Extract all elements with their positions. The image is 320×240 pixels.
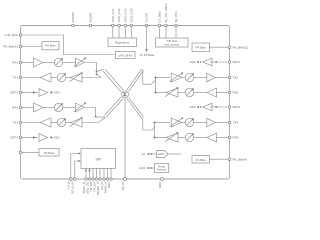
- wire TR pin: [103, 169, 105, 178]
- amp PA2: [207, 73, 216, 81]
- switch ch2 throw: [151, 81, 155, 85]
- svg-text:RX4: RX4: [233, 136, 239, 140]
- wire: [178, 137, 185, 139]
- junction dot: [96, 71, 98, 73]
- amp LNA1: [34, 58, 44, 67]
- amp LNA3: [34, 103, 44, 112]
- phase shifter PS3T: [57, 118, 66, 127]
- svg-text:SL_OK_HB12: SL_OK_HB12: [164, 3, 168, 22]
- wire to pin: [215, 122, 228, 124]
- pin PA_BIAS12 right: [228, 45, 248, 49]
- svg-text:PA_Bias12: PA_Bias12: [3, 45, 18, 49]
- wire SCLK feed: [75, 160, 81, 178]
- svg-text:SPI: SPI: [95, 158, 101, 162]
- phase shifter PS2: [185, 88, 194, 97]
- svg-text:TX4: TX4: [233, 121, 239, 125]
- switch ch2 pole route: [143, 70, 151, 85]
- amp PA1: [40, 73, 51, 82]
- switch pole ch3 diagonals: [105, 97, 124, 117]
- svg-text:Regulators: Regulators: [115, 41, 130, 45]
- svg-text:ADC: ADC: [190, 60, 197, 64]
- wire adc out: [168, 153, 181, 155]
- wire VDD1 down: [112, 27, 114, 38]
- vga VGA1T: [70, 72, 83, 82]
- svg-text:TX1: TX1: [12, 76, 18, 80]
- svg-text:Ch_Bias: Ch_Bias: [158, 11, 162, 23]
- wire: [63, 62, 76, 64]
- wire PA Bias BR to pin: [210, 158, 229, 160]
- svg-text:GND: GND: [158, 181, 162, 189]
- wire: [43, 107, 54, 109]
- wire RX1 in: [22, 62, 34, 64]
- wire PA_ON pin: [96, 169, 98, 178]
- phase shifter PS4T: [185, 118, 194, 127]
- svg-text:GND: GND: [107, 181, 111, 189]
- wire SDIO pin: [85, 169, 87, 178]
- amp LNA4: [207, 133, 217, 142]
- amp PA4: [207, 118, 216, 126]
- adc box LD: [157, 151, 169, 158]
- arrow to ADC: [197, 61, 199, 63]
- pin RX1: [12, 61, 22, 65]
- switch ch2 bar: [155, 77, 157, 94]
- svg-text:DET4: DET4: [233, 105, 241, 109]
- wire: [182, 77, 186, 79]
- switch ch4 bar: [154, 122, 156, 139]
- vga VGA2: [165, 87, 178, 97]
- wire to switch: [155, 137, 167, 139]
- dot: [215, 61, 217, 63]
- spi pin group: [82, 169, 112, 196]
- wire: [43, 62, 54, 64]
- svg-text:LNA_Bias: LNA_Bias: [5, 33, 19, 37]
- wire: [194, 92, 207, 94]
- vga VGA3: [74, 102, 87, 112]
- switch throw TX3: [99, 117, 105, 122]
- switch pole ch2 diagonals: [127, 69, 144, 91]
- wire SDIO down: [175, 27, 177, 38]
- box LNA_BIAS: [116, 52, 136, 59]
- svg-text:Tx_ON: Tx_ON: [145, 13, 149, 23]
- pin DET4: [228, 105, 240, 109]
- wire CLK down: [165, 27, 167, 38]
- wire PA_Bias12 to box: [22, 46, 42, 48]
- vga VGA4T: [170, 117, 184, 127]
- wire SDO pin: [89, 169, 91, 178]
- vga VGA1: [74, 57, 87, 67]
- box Regulators: [108, 38, 137, 47]
- wire LNA_Bias trace: [22, 35, 116, 55]
- svg-text:TX2: TX2: [233, 76, 239, 80]
- wire: [22, 107, 34, 109]
- pin DET1: [10, 91, 21, 95]
- amp det3: [39, 134, 48, 142]
- pin CSB bottom: [67, 178, 73, 190]
- pin SDIO top: [174, 11, 178, 27]
- wire: [51, 77, 57, 79]
- vga VGA4: [165, 132, 178, 142]
- phase shifter PS3: [54, 103, 63, 112]
- phase shifter PS4: [185, 133, 194, 142]
- svg-text:DET2: DET2: [233, 60, 241, 64]
- svg-text:and control: and control: [164, 42, 179, 46]
- svg-text:ADDR1: ADDR1: [88, 12, 92, 23]
- box PA Bias top-left: [42, 41, 59, 50]
- wire RST pin: [99, 169, 101, 178]
- combiner sigma: [122, 91, 129, 98]
- svg-text:SE_PCL: SE_PCL: [174, 11, 178, 23]
- pin TX3: [12, 121, 21, 125]
- svg-text:PA Bias: PA Bias: [196, 45, 207, 49]
- switch ch4 throw: [153, 126, 156, 130]
- node on left border: [19, 151, 22, 154]
- wire: [210, 61, 228, 63]
- svg-text:VDD_CH1: VDD_CH1: [111, 8, 115, 22]
- pin RX4: [228, 136, 238, 140]
- wire RF_IO: [124, 98, 126, 178]
- pin SCLK bottom: [71, 178, 77, 194]
- wire MISO pin: [107, 169, 109, 178]
- switch pole ch4 diagonals: [127, 97, 144, 118]
- svg-text:PA_bias34: PA_bias34: [233, 157, 248, 161]
- switch throw TX1: [97, 75, 101, 78]
- wire to switch: [82, 77, 101, 79]
- wire from switch: [155, 122, 171, 124]
- wire: [66, 122, 71, 124]
- wire VDD2 down: [118, 27, 120, 38]
- svg-text:LD: LD: [142, 152, 147, 156]
- svg-text:ADC: ADC: [139, 166, 146, 170]
- arrow to ADC: [197, 106, 199, 108]
- wire CSB feed: [71, 152, 81, 177]
- amp LNA2: [207, 88, 217, 97]
- svg-text:ADC: ADC: [54, 91, 61, 95]
- svg-text:PA Bias: PA Bias: [196, 158, 207, 162]
- pin VDD3 top: [123, 8, 127, 27]
- svg-text:ADC: ADC: [54, 136, 61, 140]
- pin TX1: [12, 76, 21, 80]
- phase shifter PS1T: [57, 73, 66, 82]
- pin TX4: [228, 121, 238, 125]
- switch ch4 pole route: [143, 118, 153, 131]
- pin CLK top: [164, 3, 168, 26]
- amp det2: [203, 58, 213, 66]
- pin VDD2 top: [117, 8, 121, 27]
- svg-text:RX1: RX1: [12, 61, 18, 65]
- wire to switch: [156, 92, 167, 94]
- temp sensor box: [155, 164, 169, 173]
- svg-text:SCLK_IN: SCLK_IN: [71, 182, 75, 195]
- arrow to ADC: [51, 91, 54, 93]
- wire TR down: [159, 27, 161, 38]
- wire: [22, 92, 38, 94]
- svg-text:DET1: DET1: [10, 91, 18, 95]
- wire: [51, 122, 57, 124]
- wire node to PA Bias: [22, 151, 39, 153]
- pin TX2: [228, 76, 238, 80]
- svg-text:To PA Bias: To PA Bias: [140, 53, 155, 57]
- wire: [22, 137, 38, 139]
- phase shifter PS1: [54, 58, 63, 67]
- amp det4: [203, 103, 213, 111]
- wire: [194, 122, 207, 124]
- vga VGA2T: [170, 72, 184, 82]
- wire TX_ON down arrow: [145, 27, 147, 52]
- svg-text:RX2: RX2: [233, 91, 239, 95]
- wire VDD4 down: [130, 27, 132, 38]
- amp PA3: [40, 118, 51, 127]
- pin DET2: [228, 60, 240, 64]
- pin PA_BIAS34 right: [228, 157, 247, 161]
- phase shifter PS2T: [185, 73, 194, 82]
- switch throw RX1: [97, 69, 103, 71]
- svg-text:VDD_CH2: VDD_CH2: [117, 8, 121, 22]
- arrow to ADC: [51, 136, 54, 138]
- switch pole ch1 diagonals: [103, 69, 123, 92]
- pin TX_ON top: [145, 13, 149, 27]
- wire PA Bias TR to pin: [210, 46, 229, 48]
- wire: [66, 77, 71, 79]
- svg-text:PA Bias: PA Bias: [45, 44, 56, 48]
- pin ADDR0 top: [71, 12, 75, 27]
- box PA Bias top-right: [192, 43, 210, 52]
- wire to switch: [84, 108, 96, 117]
- svg-text:RF_IO: RF_IO: [121, 181, 125, 191]
- svg-text:ADDR0: ADDR0: [71, 12, 75, 23]
- svg-text:VDD_CH3: VDD_CH3: [123, 8, 127, 22]
- vga VGA3T: [70, 117, 83, 127]
- box T/R bias and control: [156, 38, 189, 47]
- svg-text:ADC: ADC: [190, 105, 197, 109]
- chip outline U1: [21, 26, 230, 180]
- wire VDD3 down: [124, 27, 126, 38]
- pin GND2 bottom: [158, 178, 164, 189]
- wire adc to LD: [147, 153, 157, 155]
- wire: [210, 106, 228, 108]
- wire TRX pin: [92, 169, 94, 178]
- wire: [182, 122, 186, 124]
- pin VDD1 top: [111, 8, 115, 27]
- wire to pin: [215, 77, 228, 79]
- dot: [33, 136, 36, 138]
- wire from switch: [156, 77, 171, 79]
- wire: [194, 137, 207, 139]
- wire: [217, 137, 229, 139]
- pin RX2: [228, 91, 238, 95]
- switch throw RX3: [96, 116, 105, 118]
- wire: [178, 92, 185, 94]
- svg-text:ADC: ADC: [158, 152, 165, 156]
- wire GND pin: [110, 169, 112, 178]
- pin RF_IO bottom: [121, 178, 127, 191]
- svg-text:PA Bias: PA Bias: [44, 151, 55, 155]
- wire temp to ADC: [147, 167, 155, 169]
- svg-text:PA_BIAS12: PA_BIAS12: [233, 45, 249, 49]
- amp det1: [39, 89, 48, 97]
- box SPI: [81, 149, 116, 169]
- wire to switch: [84, 63, 97, 75]
- dot: [215, 106, 217, 108]
- wire: [194, 77, 207, 79]
- svg-text:VDD_CH4: VDD_CH4: [129, 8, 133, 22]
- svg-text:LNA_BIAS: LNA_BIAS: [118, 54, 132, 58]
- pin RX3: [12, 106, 22, 110]
- svg-text:Sensor: Sensor: [157, 168, 167, 172]
- junction dot: [95, 116, 97, 118]
- svg-text:RX3: RX3: [12, 106, 18, 110]
- wire: [63, 107, 76, 109]
- box PA Bias bottom-left: [39, 149, 59, 157]
- box PA Bias bottom-right: [192, 156, 210, 164]
- wire: [217, 92, 229, 94]
- pin VDD4 top: [129, 8, 133, 27]
- wire to switch: [82, 122, 99, 124]
- svg-text:DET3: DET3: [10, 136, 18, 140]
- pin LNA_Bias: [5, 33, 22, 37]
- svg-text:TX3: TX3: [12, 121, 18, 125]
- pin PA_Bias12: [3, 45, 21, 49]
- wire TX1 out: [22, 77, 40, 79]
- pin ADDR1 top: [88, 12, 92, 27]
- dot: [33, 91, 36, 93]
- pin DET3: [10, 136, 21, 140]
- wire: [22, 122, 40, 124]
- pin TR top: [158, 11, 162, 27]
